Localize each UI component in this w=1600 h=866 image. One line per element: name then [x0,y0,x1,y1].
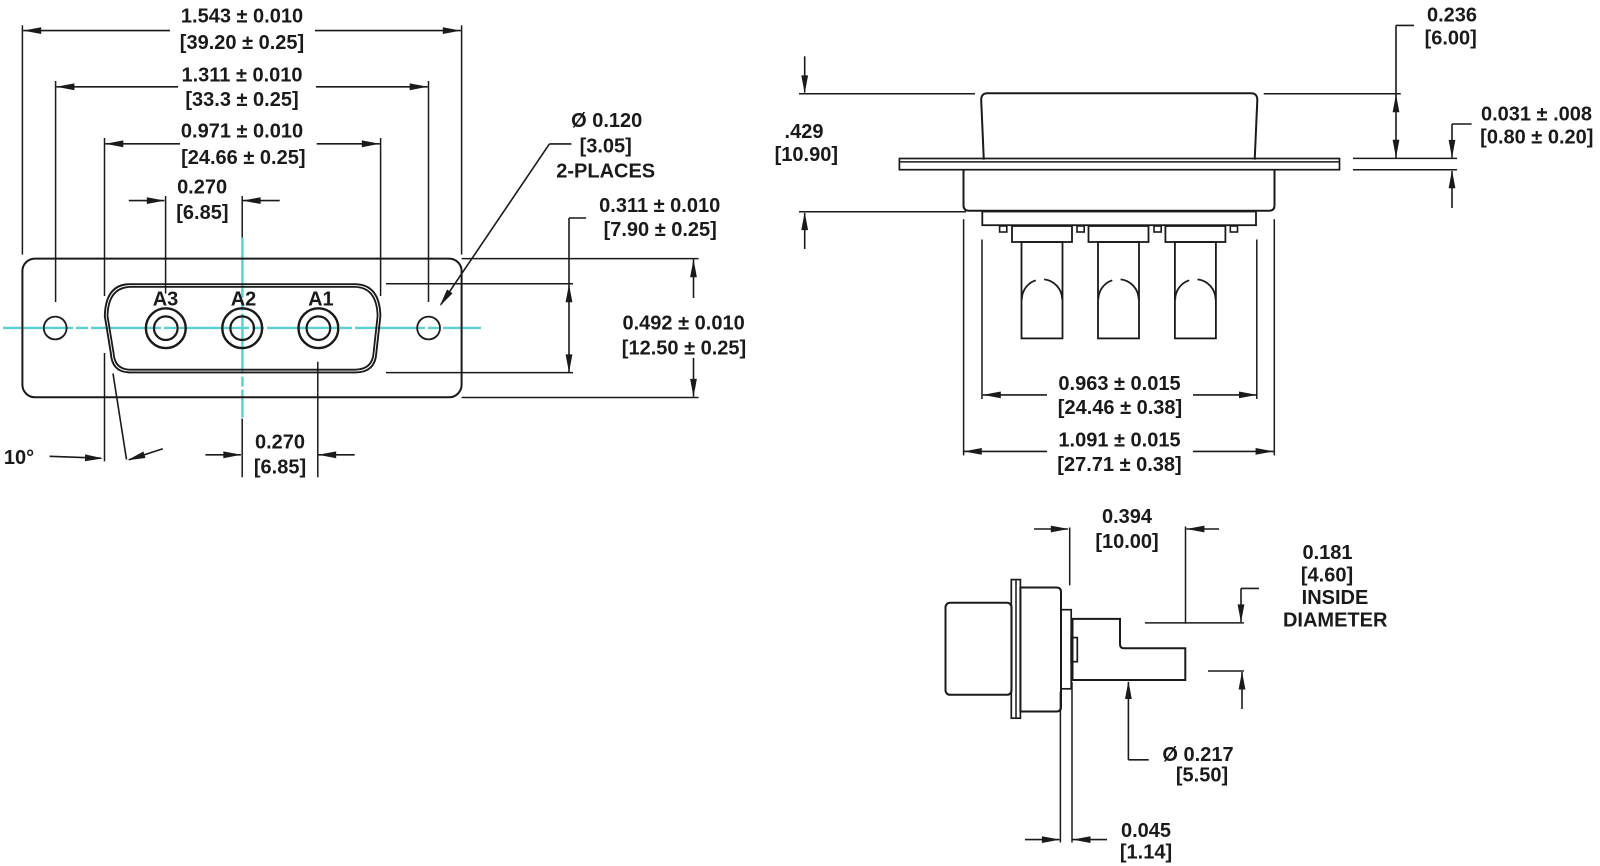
svg-text:0.031 ± .008: 0.031 ± .008 [1481,104,1592,126]
svg-text:1.543 ± 0.010: 1.543 ± 0.010 [181,6,303,28]
contact solder cup block (side view) [946,603,1012,695]
dim 0.394 extension line right [1185,527,1187,624]
svg-text:0.963 ± 0.015: 0.963 ± 0.015 [1058,373,1180,395]
draft angle reference line (vertical) [104,353,106,461]
svg-text:[4.60]: [4.60] [1301,565,1353,587]
dim 0.181 extension line bottom [1208,670,1244,672]
dim 0.270 bottom extension line right (A1) [317,362,319,478]
svg-text:[10.90]: [10.90] [775,144,838,166]
contact engagement tube (stepped) [1073,619,1186,680]
D-shaped insert cutout inner contour [108,287,378,370]
svg-text:[1.14]: [1.14] [1120,842,1172,864]
D-shaped insert cutout outer contour [105,284,381,372]
label 10 deg leader right [129,449,163,460]
dim 0.031 extension line (flange top, right) [1353,157,1457,159]
dim 0.045 arrow left [1025,839,1060,841]
dim 0.963 arrow right [1239,392,1257,399]
dim 0.311 arrow top [566,284,573,302]
left mounting hole [44,317,67,340]
cyan vertical centerline through contact A2 [241,238,243,418]
note leader arrow 0.120 [440,290,453,307]
dim 0.270 bottom arrow left [205,454,241,456]
contact collar (A3 rear) [1012,226,1072,242]
svg-text:[24.46 ± 0.38]: [24.46 ± 0.38] [1058,397,1182,419]
dim 0.045 extension line left [1059,692,1061,843]
dim 1.091 dimension line [964,450,1047,452]
dim 0.311 leader elbow [569,217,586,219]
dim 0.031 arrow up [1451,171,1453,208]
svg-text:[6.85]: [6.85] [176,202,228,224]
svg-text:0.236: 0.236 [1427,4,1477,26]
dim 0.270 top extension line left (A3) [165,196,167,294]
svg-text:[24.66 ± 0.25]: [24.66 ± 0.25] [181,147,305,169]
svg-text:DIAMETER: DIAMETER [1283,610,1388,632]
contact flange disk [1011,580,1020,719]
dim .429 arrow bottom [804,213,806,249]
shell (rear view) outline [981,93,1257,159]
solder cup dome arc (A3 rear) [1022,280,1036,299]
contact step ring [1061,610,1071,689]
svg-text:0.270: 0.270 [177,177,227,199]
dim 0.270 bottom extension line left (A2) [241,419,243,478]
dim 0.492 extension line bottom (flange bottom) [462,397,699,399]
contact A1 inner circle [307,316,331,340]
svg-text:1.091 ± 0.015: 1.091 ± 0.015 [1058,429,1180,451]
svg-text:1.311 ± 0.010: 1.311 ± 0.010 [181,65,302,87]
svg-text:.429: .429 [785,121,824,143]
solder cup dome arc (A2 rear) [1098,280,1112,299]
dim 0.045 extension line right [1071,682,1073,843]
dim 0.963 arrow left [983,392,1001,399]
dim 1.311 arrow right [410,83,428,90]
witness tab 1 [1000,226,1007,232]
dim 0.181 arrow down [1238,604,1245,622]
dim .429 arrow top [804,56,806,92]
dim 0.971 arrow right [362,140,380,147]
svg-text:[39.20 ± 0.25]: [39.20 ± 0.25] [180,32,304,54]
svg-text:[5.50]: [5.50] [1176,765,1228,787]
svg-text:Ø 0.120: Ø 0.120 [571,110,642,132]
dim 1.311 extension line left [55,81,57,302]
dim 0.492 extension line top (flange top) [462,258,699,260]
dim 0.270 bottom arrow right [318,454,355,456]
dim 0.394 extension line left [1069,528,1071,586]
contact collar (A2 rear) [1089,226,1149,242]
svg-text:[27.71 ± 0.38]: [27.71 ± 0.38] [1057,454,1181,476]
svg-text:0.971 ± 0.010: 0.971 ± 0.010 [181,121,303,143]
svg-text:0.311 ± 0.010: 0.311 ± 0.010 [599,195,720,217]
svg-text:[33.3 ± 0.25]: [33.3 ± 0.25] [185,89,298,111]
dim .429 extension line top (shell top) [799,93,975,95]
insulator body (rear view) [964,170,1275,211]
contact flange disk mid line [1015,580,1017,719]
dim 0.394 arrow left [1034,528,1068,530]
dim 1.543 arrow right [443,27,461,34]
connector flange outline (front view) [22,259,461,398]
dim 1.091 arrow left [964,448,982,455]
insulator lower step plate [982,212,1256,226]
svg-text:0.181: 0.181 [1302,542,1352,564]
label 10 deg leader left [50,456,101,458]
dim 0.492 dimension line [693,259,695,298]
witness tab 4 [1230,226,1237,232]
dim 0.236 extension line (shell top, right) [1264,93,1401,95]
dim 1.091 arrow right [1256,448,1274,455]
dim 1.543 arrow left [23,27,41,34]
dim 0.236 arrow down [1393,140,1400,158]
contact solder cup body (A1 rear) [1175,242,1216,338]
cyan horizontal centerline through contacts and mounting holes [3,327,481,329]
contact main barrel [1020,588,1061,712]
solder cup dome arc (A1 rear) [1175,280,1189,299]
dim 0.311 arrow bottom [566,354,573,372]
witness tab 2 [1077,226,1084,232]
svg-text:Ø 0.217: Ø 0.217 [1162,744,1233,766]
dim 0.311 dimension line [568,284,570,372]
svg-text:[3.05]: [3.05] [580,136,632,158]
dim 1.543 dimension line [23,30,170,32]
dim 0.045 arrow right [1073,839,1108,841]
svg-text:0.270: 0.270 [255,432,305,454]
dim 0.971 dimension line [105,143,180,145]
dim 0.492 arrow bottom [690,379,697,397]
dim 0.031 extension line (flange bottom, right) [1353,169,1457,171]
contact A3 inner circle [154,316,178,340]
dim 0.971 extension line right [380,138,382,296]
flange plate mid line [899,161,1339,163]
note leader 0.120 (to right mounting hole) [549,143,571,145]
dim 0.181 extension line top [1145,622,1244,624]
svg-text:0.492 ± 0.010: 0.492 ± 0.010 [623,312,745,334]
mounting flange plate (rear view) [899,159,1339,170]
dim 0.971 extension line left [104,138,106,296]
dim 1.543 extension line left [21,25,23,254]
dim 0.963 extension line left [981,240,983,400]
contact solder cup body (A2 rear) [1098,242,1139,338]
dim .429 extension line bottom (insulator bottom) [799,211,966,213]
contact collar (A1 rear) [1165,226,1225,242]
svg-text:[7.90 ± 0.25]: [7.90 ± 0.25] [604,219,717,241]
right mounting hole [417,317,440,340]
svg-text:INSIDE: INSIDE [1302,587,1369,609]
contact A3 outer circle [146,308,186,348]
dim 1.311 extension line right [428,81,430,302]
dim dia 0.217 leader [1127,682,1129,760]
dim 1.311 arrow left [56,83,74,90]
dim 1.311 dimension line [56,86,178,88]
contact A1 outer circle [299,308,339,348]
svg-text:0.394: 0.394 [1102,506,1153,528]
svg-text:[6.00]: [6.00] [1425,28,1477,50]
witness tab 3 [1154,226,1161,232]
dim 0.394 arrow right [1186,528,1219,530]
svg-text:A2: A2 [231,289,257,311]
svg-text:0.045: 0.045 [1121,820,1171,842]
dim 0.311 extension line bottom (D bottom edge) [386,372,573,374]
contact A2 outer circle [222,308,262,348]
svg-text:[0.80 ± 0.20]: [0.80 ± 0.20] [1480,127,1593,149]
dim 0.236 leader elbow [1396,24,1414,26]
contact solder cup body (A3 rear) [1022,242,1063,338]
dim 0.181 arrow up [1241,672,1243,709]
contact small notch [1071,638,1077,662]
dim 0.492 arrow top [690,259,697,277]
dim 0.270 top arrow right [243,200,280,202]
dim 0.963 extension line right [1256,240,1258,400]
svg-text:2-PLACES: 2-PLACES [556,161,655,183]
contact A2 inner circle [230,316,254,340]
dim 0.181 leader elbow [1241,587,1259,589]
dim 0.031 arrow down [1449,140,1456,158]
dim 1.543 extension line right [461,25,463,254]
draft angle slanted line [113,374,127,460]
svg-text:[6.85]: [6.85] [254,457,306,479]
dim 1.091 extension line right [1273,219,1275,455]
dim 0.311 extension line top (D top edge) [386,283,573,285]
dim 0.963 dimension line [983,394,1047,396]
dim 0.270 top extension line right (A2) [241,196,243,238]
dim 1.091 extension line left [963,219,965,455]
dim 0.236 arrow up [1393,94,1400,112]
svg-text:[12.50 ± 0.25]: [12.50 ± 0.25] [622,337,746,359]
dim 0.270 top arrow left [129,200,165,202]
dim dia 0.217 arrow [1125,681,1132,699]
svg-text:[10.00]: [10.00] [1095,531,1158,553]
svg-text:A1: A1 [308,289,334,311]
dim 0.031 leader elbow [1452,123,1472,125]
svg-text:10°: 10° [4,447,34,469]
dim 0.971 arrow left [105,140,123,147]
